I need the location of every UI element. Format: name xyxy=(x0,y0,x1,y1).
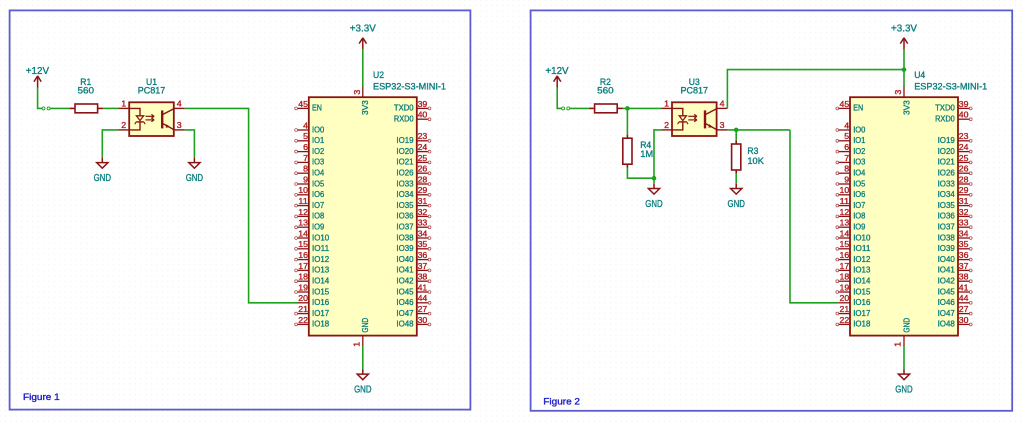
optocoupler U3 PC817 xyxy=(661,77,727,136)
svg-text:19: 19 xyxy=(840,282,850,292)
wire U2 GND pin down xyxy=(362,346,364,369)
svg-text:24: 24 xyxy=(959,142,969,152)
svg-text:Figure 1: Figure 1 xyxy=(23,392,60,402)
svg-text:33: 33 xyxy=(418,218,428,228)
svg-text:4: 4 xyxy=(303,120,308,130)
svg-text:IO48: IO48 xyxy=(396,319,413,329)
svg-text:18: 18 xyxy=(840,272,850,282)
U4 pin 8 (IO4) xyxy=(836,164,866,178)
svg-text:IO4: IO4 xyxy=(853,168,865,178)
svg-text:38: 38 xyxy=(959,272,969,282)
svg-text:10: 10 xyxy=(298,185,308,195)
svg-text:+3.3V: +3.3V xyxy=(891,23,917,34)
U4 pin 15 (IO11) xyxy=(836,239,871,253)
svg-text:3V3: 3V3 xyxy=(360,100,370,115)
wire R4 bottom to GND junction xyxy=(627,168,654,178)
svg-text:IO37: IO37 xyxy=(938,222,955,232)
svg-text:IO13: IO13 xyxy=(312,265,329,275)
wire +12V down/right (fig2) xyxy=(557,88,561,109)
U2 pin 36 (IO40) xyxy=(396,250,431,264)
U4 pin 12 (IO8) xyxy=(836,207,866,221)
U2 pin 25 (IO21) xyxy=(396,153,431,167)
resistor R2 560 (horizontal) xyxy=(589,77,622,113)
svg-text:30: 30 xyxy=(418,315,428,325)
svg-text:IO18: IO18 xyxy=(853,319,870,329)
svg-text:560: 560 xyxy=(597,86,614,97)
U2 pin 19 (IO15) xyxy=(295,282,330,296)
svg-text:IO19: IO19 xyxy=(396,135,413,145)
U4 pin 38 (IO42) xyxy=(938,272,973,286)
svg-text:21: 21 xyxy=(840,304,850,314)
svg-text:+12V: +12V xyxy=(545,66,569,77)
U2 pin 6 (IO2) xyxy=(295,142,325,156)
power +12V symbol fig1 xyxy=(26,66,50,88)
svg-text:IO1: IO1 xyxy=(853,135,865,145)
svg-text:36: 36 xyxy=(418,250,428,260)
svg-text:IO4: IO4 xyxy=(312,168,324,178)
svg-text:7: 7 xyxy=(303,153,308,163)
U4 pin 40 (RXD0) xyxy=(935,110,972,124)
svg-text:IO41: IO41 xyxy=(938,265,955,275)
U4 pin 26 (IO26) xyxy=(938,164,973,178)
U4 pin 30 (IO48) xyxy=(938,315,973,329)
svg-text:5: 5 xyxy=(303,131,308,141)
svg-text:22: 22 xyxy=(298,315,308,325)
U4 pin 28 (IO33) xyxy=(938,174,973,188)
svg-text:14: 14 xyxy=(298,228,308,238)
U2 pin 39 (TXD0) xyxy=(394,99,431,113)
svg-text:32: 32 xyxy=(959,207,969,217)
svg-text:IO6: IO6 xyxy=(312,189,324,199)
dangling wire end node xyxy=(42,107,45,110)
svg-text:IO8: IO8 xyxy=(853,211,865,221)
svg-text:25: 25 xyxy=(418,153,428,163)
U4 pin 32 (IO36) xyxy=(938,207,973,221)
U2 pin 29 (IO34) xyxy=(396,185,431,199)
svg-text:Figure 2: Figure 2 xyxy=(543,397,580,407)
svg-text:IO26: IO26 xyxy=(396,168,413,178)
svg-text:IO12: IO12 xyxy=(853,254,870,264)
svg-text:IO2: IO2 xyxy=(312,146,324,156)
svg-text:23: 23 xyxy=(959,131,969,141)
svg-text:30: 30 xyxy=(959,315,969,325)
svg-text:GND: GND xyxy=(728,199,745,210)
svg-text:23: 23 xyxy=(418,131,428,141)
wire U3 pin 4 up to +3.3V rail xyxy=(727,70,904,109)
svg-text:GND: GND xyxy=(901,318,911,333)
U2 pin 18 (IO14) xyxy=(295,272,330,286)
svg-text:1: 1 xyxy=(351,342,361,347)
svg-text:39: 39 xyxy=(959,99,969,109)
U2 pin 7 (IO3) xyxy=(295,153,325,167)
U2 pin 15 (IO11) xyxy=(295,239,330,253)
svg-text:34: 34 xyxy=(418,228,428,238)
svg-text:PC817: PC817 xyxy=(681,86,709,97)
U4 pin 3 (3V3) xyxy=(893,86,911,115)
svg-text:31: 31 xyxy=(418,196,428,206)
svg-text:35: 35 xyxy=(959,239,969,249)
U2 pin 8 (IO4) xyxy=(295,164,325,178)
svg-text:IO16: IO16 xyxy=(853,297,870,307)
U2 pin 11 (IO7) xyxy=(295,196,325,210)
power +12V symbol fig2 xyxy=(545,66,569,88)
junction node pin3/R3 xyxy=(734,128,739,133)
wire +12V down/right xyxy=(38,88,42,109)
svg-text:TXD0: TXD0 xyxy=(935,103,955,113)
svg-text:4: 4 xyxy=(720,98,725,108)
wire +3.3V to U2 3V3 pin xyxy=(362,49,364,87)
svg-text:ESP32-S3-MINI-1: ESP32-S3-MINI-1 xyxy=(914,82,987,93)
ground symbol under U1 pin3 xyxy=(186,158,203,184)
wire U3 pin 3 to junction and right xyxy=(727,129,790,131)
U2 pin 41 (IO45) xyxy=(396,282,431,296)
svg-text:IO14: IO14 xyxy=(312,276,329,286)
U2 pin 17 (IO13) xyxy=(295,261,330,275)
U2 pin 34 (IO38) xyxy=(396,228,431,242)
svg-text:IO5: IO5 xyxy=(853,178,865,188)
svg-text:IO7: IO7 xyxy=(312,200,324,210)
svg-text:IO41: IO41 xyxy=(396,265,413,275)
svg-text:IO12: IO12 xyxy=(312,254,329,264)
svg-text:GND: GND xyxy=(895,385,912,396)
wire U4 GND pin down xyxy=(903,346,905,369)
U4 pin 1 (GND) xyxy=(893,318,912,347)
U2 pin 3 (3V3) xyxy=(352,86,370,115)
svg-text:IO21: IO21 xyxy=(938,157,955,167)
svg-text:1M: 1M xyxy=(640,149,653,160)
svg-text:IO14: IO14 xyxy=(853,276,870,286)
U2 pin 16 (IO12) xyxy=(295,250,330,264)
svg-text:6: 6 xyxy=(844,142,849,152)
svg-text:+12V: +12V xyxy=(26,66,50,77)
dangling wire start node (fig2) xyxy=(567,107,570,110)
svg-text:RXD0: RXD0 xyxy=(935,114,955,124)
U4 pin 34 (IO38) xyxy=(938,228,973,242)
resistor R4 1M (vertical) xyxy=(623,135,653,168)
U2 pin 32 (IO36) xyxy=(396,207,431,221)
U2 pin 28 (IO33) xyxy=(396,174,431,188)
dangling wire end node (fig2) xyxy=(562,107,565,110)
U2 pin 44 (IO46) xyxy=(396,293,431,307)
svg-text:28: 28 xyxy=(418,174,428,184)
U4 pin 9 (IO5) xyxy=(836,174,866,188)
svg-text:IO26: IO26 xyxy=(938,168,955,178)
svg-text:9: 9 xyxy=(844,174,849,184)
svg-text:IO1: IO1 xyxy=(312,135,324,145)
svg-text:GND: GND xyxy=(186,173,203,184)
U2 pin 22 (IO18) xyxy=(295,315,330,329)
IC U2 ESP32-S3-MINI-1 xyxy=(309,70,446,336)
wire U1 pin 2 to GND xyxy=(102,130,118,158)
svg-text:IO15: IO15 xyxy=(853,286,870,296)
U2 pin 5 (IO1) xyxy=(295,131,325,145)
svg-text:35: 35 xyxy=(418,239,428,249)
svg-text:IO36: IO36 xyxy=(396,211,413,221)
svg-text:GND: GND xyxy=(645,199,662,210)
junction node +3.3V rail xyxy=(902,67,907,72)
svg-text:41: 41 xyxy=(418,282,428,292)
svg-text:10K: 10K xyxy=(747,156,764,167)
wire +3.3V down to U4 3V3 pin xyxy=(903,49,905,87)
svg-text:IO46: IO46 xyxy=(396,297,413,307)
wire U3 pin 2 down xyxy=(654,130,661,184)
svg-text:IO39: IO39 xyxy=(938,243,955,253)
svg-text:IO18: IO18 xyxy=(312,319,329,329)
svg-text:IO42: IO42 xyxy=(396,276,413,286)
svg-text:IO33: IO33 xyxy=(396,178,413,188)
svg-text:PC817: PC817 xyxy=(138,86,166,97)
svg-text:26: 26 xyxy=(418,164,428,174)
U4 pin 45 (EN) xyxy=(836,99,863,113)
U4 pin 41 (IO45) xyxy=(938,282,973,296)
U4 pin 20 (IO16) xyxy=(838,293,870,307)
svg-text:RXD0: RXD0 xyxy=(394,114,414,124)
svg-text:IO5: IO5 xyxy=(312,178,324,188)
U2 pin 35 (IO39) xyxy=(396,239,431,253)
figure 1 border frame xyxy=(10,10,471,409)
U2 pin 4 (IO0) xyxy=(295,120,325,134)
svg-text:12: 12 xyxy=(840,207,850,217)
svg-text:8: 8 xyxy=(844,164,849,174)
svg-text:15: 15 xyxy=(840,239,850,249)
svg-text:13: 13 xyxy=(298,218,308,228)
svg-text:20: 20 xyxy=(840,293,850,303)
svg-text:8: 8 xyxy=(303,164,308,174)
U4 pin 21 (IO17) xyxy=(836,304,871,318)
svg-text:33: 33 xyxy=(959,218,969,228)
U2 pin 10 (IO6) xyxy=(295,185,325,199)
svg-text:IO46: IO46 xyxy=(938,297,955,307)
U4 pin 44 (IO46) xyxy=(938,293,973,307)
ground symbol under U1 pin2 xyxy=(94,158,111,184)
svg-text:IO39: IO39 xyxy=(396,243,413,253)
svg-text:3: 3 xyxy=(352,89,362,94)
wire R1 to U1 pin 1 xyxy=(103,107,119,109)
svg-text:3V3: 3V3 xyxy=(901,100,911,115)
svg-text:11: 11 xyxy=(840,196,850,206)
U4 pin 4 (IO0) xyxy=(836,120,866,134)
svg-text:44: 44 xyxy=(418,293,428,303)
svg-text:IO42: IO42 xyxy=(938,276,955,286)
svg-text:IO13: IO13 xyxy=(853,265,870,275)
svg-text:2: 2 xyxy=(121,120,126,130)
svg-text:IO21: IO21 xyxy=(396,157,413,167)
U4 pin 14 (IO10) xyxy=(836,228,871,242)
svg-text:IO35: IO35 xyxy=(396,200,413,210)
svg-text:IO38: IO38 xyxy=(396,232,413,242)
wire junction down to R4 xyxy=(626,108,628,134)
svg-text:6: 6 xyxy=(303,142,308,152)
power +3.3V symbol fig2 xyxy=(891,23,917,49)
svg-text:IO34: IO34 xyxy=(396,189,413,199)
svg-text:+3.3V: +3.3V xyxy=(350,23,376,34)
svg-text:IO11: IO11 xyxy=(853,243,870,253)
svg-text:14: 14 xyxy=(840,228,850,238)
U2 pin 14 (IO10) xyxy=(295,228,330,242)
svg-text:20: 20 xyxy=(298,293,308,303)
svg-text:27: 27 xyxy=(959,304,969,314)
U2 pin 38 (IO42) xyxy=(396,272,431,286)
svg-text:EN: EN xyxy=(312,103,322,113)
U2 pin 1 (GND) xyxy=(351,318,370,347)
power +3.3V symbol fig1 xyxy=(350,23,376,49)
wire to R2 xyxy=(570,107,590,109)
svg-text:31: 31 xyxy=(959,196,969,206)
svg-text:IO7: IO7 xyxy=(853,200,865,210)
svg-text:IO40: IO40 xyxy=(396,254,413,264)
U4 pin 36 (IO40) xyxy=(938,250,973,264)
svg-text:1: 1 xyxy=(893,342,903,347)
U2 pin 31 (IO35) xyxy=(396,196,431,210)
svg-text:44: 44 xyxy=(959,293,969,303)
svg-text:IO8: IO8 xyxy=(312,211,324,221)
svg-text:TXD0: TXD0 xyxy=(394,103,414,113)
wire R2 to U3 pin 1 xyxy=(623,107,662,109)
U2 pin 9 (IO5) xyxy=(295,174,325,188)
svg-text:3: 3 xyxy=(893,89,903,94)
U2 pin 37 (IO41) xyxy=(396,261,431,275)
U2 pin 12 (IO8) xyxy=(295,207,325,221)
resistor R3 10K (vertical) xyxy=(732,140,765,173)
U2 pin 23 (IO19) xyxy=(396,131,431,145)
svg-text:37: 37 xyxy=(418,261,428,271)
svg-text:9: 9 xyxy=(303,174,308,184)
svg-text:IO10: IO10 xyxy=(312,232,329,242)
svg-text:10: 10 xyxy=(840,185,850,195)
svg-text:4: 4 xyxy=(844,120,849,130)
svg-text:IO37: IO37 xyxy=(396,222,413,232)
svg-text:IO38: IO38 xyxy=(938,232,955,242)
svg-text:29: 29 xyxy=(959,185,969,195)
svg-text:27: 27 xyxy=(418,304,428,314)
svg-text:19: 19 xyxy=(298,282,308,292)
ground symbol under U4 xyxy=(895,370,912,396)
svg-text:17: 17 xyxy=(298,261,308,271)
svg-text:7: 7 xyxy=(844,153,849,163)
wire U3 pin3 net to U4 IO16 xyxy=(790,130,838,303)
svg-text:2: 2 xyxy=(664,120,669,130)
dangling wire start node xyxy=(47,107,50,110)
U4 pin 7 (IO3) xyxy=(836,153,866,167)
U2 pin 40 (RXD0) xyxy=(394,110,431,124)
svg-text:40: 40 xyxy=(959,110,969,120)
svg-text:38: 38 xyxy=(418,272,428,282)
U4 pin 22 (IO18) xyxy=(836,315,871,329)
U4 pin 16 (IO12) xyxy=(836,250,871,264)
U4 pin 25 (IO21) xyxy=(938,153,973,167)
svg-text:39: 39 xyxy=(418,99,428,109)
svg-text:4: 4 xyxy=(177,98,182,108)
svg-text:45: 45 xyxy=(298,99,308,109)
svg-text:5: 5 xyxy=(844,131,849,141)
svg-text:24: 24 xyxy=(418,142,428,152)
U4 pin 27 (IO47) xyxy=(938,304,973,318)
svg-text:IO0: IO0 xyxy=(312,124,324,134)
svg-text:IO20: IO20 xyxy=(938,146,955,156)
svg-text:IO17: IO17 xyxy=(853,308,870,318)
svg-text:ESP32-S3-MINI-1: ESP32-S3-MINI-1 xyxy=(373,82,446,93)
svg-text:15: 15 xyxy=(298,239,308,249)
U4 pin 29 (IO34) xyxy=(938,185,973,199)
svg-text:IO2: IO2 xyxy=(853,146,865,156)
U4 pin 13 (IO9) xyxy=(836,218,866,232)
svg-text:41: 41 xyxy=(959,282,969,292)
svg-text:21: 21 xyxy=(298,304,308,314)
svg-text:IO47: IO47 xyxy=(938,308,955,318)
svg-text:EN: EN xyxy=(853,103,863,113)
svg-text:IO3: IO3 xyxy=(312,157,324,167)
U4 pin 5 (IO1) xyxy=(836,131,866,145)
U2 pin 20 (IO16) xyxy=(297,293,329,307)
svg-text:IO6: IO6 xyxy=(853,189,865,199)
svg-text:GND: GND xyxy=(360,318,370,333)
svg-text:IO35: IO35 xyxy=(938,200,955,210)
svg-text:IO20: IO20 xyxy=(396,146,413,156)
svg-text:1: 1 xyxy=(121,98,126,108)
U4 pin 6 (IO2) xyxy=(836,142,866,156)
svg-text:28: 28 xyxy=(959,174,969,184)
svg-text:IO36: IO36 xyxy=(938,211,955,221)
U2 pin 26 (IO26) xyxy=(396,164,431,178)
svg-text:IO19: IO19 xyxy=(938,135,955,145)
U2 pin 27 (IO47) xyxy=(396,304,431,318)
svg-text:IO16: IO16 xyxy=(312,297,329,307)
U4 pin 39 (TXD0) xyxy=(935,99,972,113)
svg-text:37: 37 xyxy=(959,261,969,271)
U4 pin 17 (IO13) xyxy=(836,261,871,275)
svg-text:11: 11 xyxy=(298,196,308,206)
svg-text:45: 45 xyxy=(840,99,850,109)
ground symbol under U2 xyxy=(354,370,371,396)
svg-text:29: 29 xyxy=(418,185,428,195)
U4 pin 24 (IO20) xyxy=(938,142,973,156)
wire junction down to R3 xyxy=(735,130,737,141)
svg-text:1: 1 xyxy=(664,98,669,108)
figure 2 border frame xyxy=(531,10,1013,410)
svg-text:IO9: IO9 xyxy=(853,222,865,232)
svg-text:IO15: IO15 xyxy=(312,286,329,296)
svg-text:IO33: IO33 xyxy=(938,178,955,188)
U4 pin 19 (IO15) xyxy=(836,282,871,296)
svg-text:U2: U2 xyxy=(373,70,384,81)
svg-text:IO10: IO10 xyxy=(853,232,870,242)
svg-text:16: 16 xyxy=(840,250,850,260)
resistor R1 560 (horizontal) xyxy=(70,77,103,113)
svg-text:GND: GND xyxy=(354,385,371,396)
optocoupler U1 PC817 xyxy=(118,77,184,136)
U4 pin 11 (IO7) xyxy=(836,196,866,210)
svg-text:36: 36 xyxy=(959,250,969,260)
U4 pin 10 (IO6) xyxy=(836,185,866,199)
wire to R1 xyxy=(50,107,70,109)
svg-text:13: 13 xyxy=(840,218,850,228)
U2 pin 33 (IO37) xyxy=(396,218,431,232)
svg-text:3: 3 xyxy=(720,120,725,130)
svg-text:3: 3 xyxy=(177,120,182,130)
svg-text:34: 34 xyxy=(959,228,969,238)
svg-text:16: 16 xyxy=(298,250,308,260)
svg-text:IO45: IO45 xyxy=(938,286,955,296)
svg-text:12: 12 xyxy=(298,207,308,217)
U2 pin 24 (IO20) xyxy=(396,142,431,156)
svg-text:IO40: IO40 xyxy=(938,254,955,264)
svg-text:IO34: IO34 xyxy=(938,189,955,199)
svg-text:IO17: IO17 xyxy=(312,308,329,318)
wire U1 pin 3 to GND xyxy=(185,130,195,158)
svg-text:IO3: IO3 xyxy=(853,157,865,167)
U4 pin 37 (IO41) xyxy=(938,261,973,275)
junction node R2/R4/U3.1 xyxy=(625,106,630,111)
